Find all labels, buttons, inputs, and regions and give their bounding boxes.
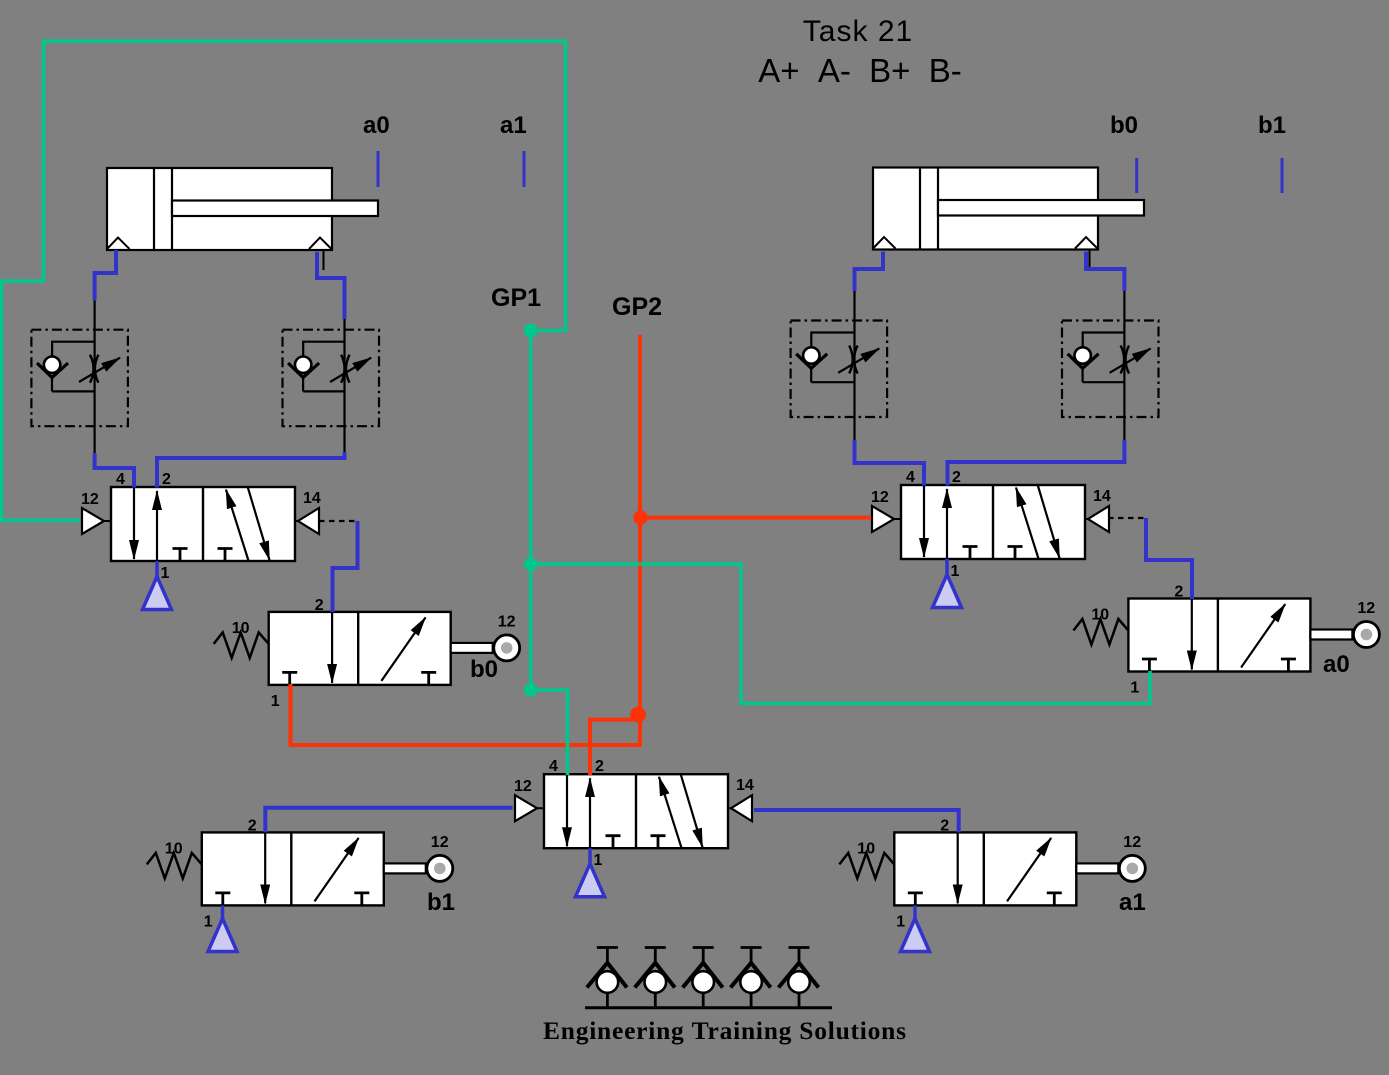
valve a1 3/2	[839, 817, 1145, 930]
flow control A left	[31, 330, 128, 427]
blue wire to valve V1 port 4	[95, 453, 134, 488]
svg-text:a0: a0	[363, 112, 390, 139]
sensor tick a0	[377, 151, 380, 187]
logo baseline	[585, 1006, 832, 1009]
svg-text:b0: b0	[470, 656, 498, 683]
exhaust triangle valve b1	[208, 905, 237, 951]
red wire branch to valve V3 port 2	[590, 720, 639, 775]
logo unit 5	[779, 948, 819, 1008]
flow control B right	[1062, 321, 1159, 418]
black stub cylinder A right port	[323, 250, 325, 270]
green wire GP1 to valve V3 port 4	[531, 690, 568, 775]
logo unit 3	[683, 948, 723, 1008]
svg-text:GP2: GP2	[612, 293, 662, 321]
sensor tick a1	[523, 151, 526, 187]
blue wire cylinder A right port down	[317, 252, 345, 319]
svg-text:b1: b1	[1258, 112, 1286, 139]
blue wire cylinder A left port down	[95, 250, 116, 300]
svg-text:a1: a1	[500, 112, 527, 139]
cylinder B	[873, 168, 1144, 250]
black stub cylinder B right port	[1089, 250, 1091, 270]
valve V1 5/2 left	[81, 471, 321, 610]
logo unit 1	[587, 948, 627, 1008]
svg-text:GP1: GP1	[491, 284, 541, 312]
red junction GP2 upper	[633, 510, 647, 524]
flow control A right	[283, 330, 380, 427]
sensor tick b0	[1135, 158, 1138, 193]
green junction GP1 bottom	[524, 683, 538, 697]
black line B-right through flow control	[1123, 291, 1125, 440]
blue wire b1 port 2 to valve V3 pilot 12	[265, 808, 512, 833]
exhaust triangle valve a1	[901, 905, 930, 951]
svg-text:a0: a0	[1323, 651, 1350, 678]
blue wire to valve V2 port 4	[855, 440, 925, 486]
valve a0 3/2	[1073, 584, 1379, 697]
logo unit 2	[635, 948, 675, 1008]
red junction GP2 lower	[630, 707, 646, 723]
red wire GP2 main vertical and to b0 port 1	[291, 335, 641, 745]
green wire GP1 loop to valve V1 pilot 12	[2, 41, 566, 520]
valve V2 5/2 right	[871, 469, 1111, 608]
blue wire valve V1 pilot 14 to b0 port 2	[333, 521, 358, 612]
logo unit 4	[731, 948, 771, 1008]
black line A-left through flow control	[93, 300, 95, 453]
green junction GP1 top	[524, 324, 538, 338]
dashed pilot line valve B 14	[1108, 517, 1146, 519]
cylinder A	[107, 168, 378, 250]
sensor tick b1	[1281, 158, 1284, 193]
valve b0 3/2	[214, 597, 520, 710]
svg-text:b0: b0	[1110, 112, 1138, 139]
green wire GP1 vertical	[529, 331, 533, 691]
red wire GP2 to valve V2 pilot 12	[640, 516, 871, 520]
blue wire cylinder B right port down	[1086, 252, 1124, 291]
blue wire cylinder B left port down	[855, 252, 884, 291]
blue wire to valve V1 port 2	[157, 452, 345, 488]
black line A-right through flow control	[343, 319, 345, 452]
svg-text:a1: a1	[1119, 889, 1146, 916]
green junction GP1 middle	[524, 557, 538, 571]
svg-text:Task 21: Task 21	[803, 15, 913, 48]
svg-text:Engineering Training Solutions: Engineering Training Solutions	[543, 1016, 906, 1045]
blue wire to valve V2 port 2	[948, 440, 1125, 486]
valve V3 5/2 center	[514, 758, 754, 897]
svg-text:b1: b1	[427, 889, 455, 916]
valve b1 3/2	[147, 817, 453, 930]
blue wire valve V3 pilot 14 to a1 port 2	[754, 810, 959, 832]
flow control B left	[791, 321, 888, 418]
dashed pilot line valve A 14	[319, 520, 358, 522]
blue wire valve V2 pilot 14 to a0 port 2	[1146, 518, 1192, 599]
svg-text:A+ A- B+ B-: A+ A- B+ B-	[758, 52, 962, 89]
green wire GP1 to a0 port 1	[531, 564, 1150, 704]
black line B-left through flow control	[853, 291, 855, 440]
